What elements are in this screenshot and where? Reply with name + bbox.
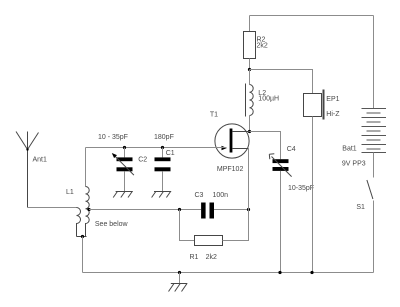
- svg-text:EP1: EP1: [326, 96, 339, 103]
- wire bottom rail: [83, 272, 374, 274]
- battery Bat1: [362, 109, 387, 153]
- ground C1: [152, 192, 172, 198]
- wire source down: [248, 149, 250, 210]
- inductor L2: [246, 84, 254, 117]
- svg-text:2k2: 2k2: [257, 43, 268, 50]
- svg-text:S1: S1: [356, 204, 365, 211]
- svg-text:2k2: 2k2: [206, 254, 217, 261]
- switch S1: [367, 180, 373, 199]
- wire switch to bottom rail: [373, 201, 375, 273]
- svg-text:C1: C1: [166, 150, 175, 157]
- wire tank left down: [85, 148, 87, 187]
- antenna Ant1: [16, 132, 39, 208]
- capacitor C1: [155, 157, 171, 171]
- node C2 top: [123, 146, 126, 149]
- svg-text:MPF102: MPF102: [217, 166, 244, 173]
- node C3 left: [178, 208, 181, 211]
- ground main: [169, 284, 188, 292]
- wire C3 right: [214, 209, 249, 211]
- ground C2: [113, 192, 133, 198]
- svg-text:See below: See below: [95, 221, 129, 228]
- svg-text:100µH: 100µH: [258, 96, 279, 103]
- wire drain to C4: [250, 132, 281, 160]
- wire battery to switch: [373, 153, 375, 178]
- wire ground stub: [179, 273, 181, 284]
- svg-text:L1: L1: [66, 189, 74, 196]
- svg-text:100n: 100n: [213, 192, 229, 199]
- wire L1 to bottom rail: [82, 237, 84, 273]
- wire tap to C3: [89, 209, 201, 211]
- wire R1 left branch: [180, 210, 195, 241]
- capacitor C3: [201, 203, 214, 219]
- svg-text:10-35pF: 10-35pF: [288, 185, 314, 192]
- node drain: [248, 130, 251, 133]
- capacitor C4: [269, 154, 291, 177]
- wire junction to EP1: [250, 70, 313, 94]
- inductor L1 right winding: [86, 187, 90, 237]
- wire antenna to L1: [28, 207, 77, 209]
- svg-text:Hi-Z: Hi-Z: [326, 111, 340, 118]
- wire C4 bottom: [280, 171, 282, 273]
- node C4 rail: [278, 271, 281, 274]
- svg-text:R1: R1: [190, 254, 199, 261]
- svg-text:Ant1: Ant1: [33, 157, 48, 164]
- wire L2 top: [249, 70, 251, 85]
- svg-text:9V PP3: 9V PP3: [342, 161, 366, 168]
- transistor T1: [215, 124, 250, 158]
- svg-text:10 - 35pF: 10 - 35pF: [98, 134, 128, 141]
- wire gate line: [86, 147, 227, 149]
- wire C1 top: [162, 148, 164, 158]
- svg-text:C3: C3: [195, 192, 204, 199]
- svg-text:Bat1: Bat1: [342, 146, 357, 153]
- wire EP1 bottom: [312, 117, 314, 273]
- node C3 right: [247, 208, 250, 211]
- node L1 tap: [87, 208, 90, 211]
- wire C1 bottom: [162, 171, 164, 191]
- svg-text:C4: C4: [287, 146, 296, 153]
- node EP1 rail: [310, 271, 313, 274]
- resistor R1: [195, 236, 223, 246]
- resistor R2: [244, 32, 256, 59]
- wire L2 bottom: [249, 116, 251, 132]
- node ground rail: [178, 271, 181, 274]
- capacitor C2: [112, 153, 134, 175]
- svg-text:C2: C2: [138, 157, 147, 164]
- wire L1 bottom join: [77, 236, 87, 238]
- node C1 top: [161, 146, 164, 149]
- inductor L1 left winding: [77, 208, 81, 237]
- node L1 bottom: [81, 235, 84, 238]
- wire R2 bottom: [249, 59, 251, 70]
- wire R1 right branch: [223, 210, 249, 241]
- svg-text:T1: T1: [210, 112, 218, 119]
- svg-text:180pF: 180pF: [154, 134, 174, 141]
- wire R2 top: [249, 16, 251, 32]
- wire C2 top: [124, 148, 126, 158]
- wire right rail to battery: [373, 16, 375, 109]
- wire top rail: [250, 15, 374, 17]
- earphone EP1: [304, 90, 324, 120]
- node R2/L2/EP1 junction: [248, 68, 251, 71]
- wire C2 bottom: [124, 171, 126, 191]
